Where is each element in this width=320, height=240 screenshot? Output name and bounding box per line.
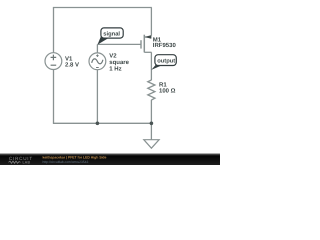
wire top rail: [53, 7, 152, 9]
svg-text:2.8 V: 2.8 V: [65, 62, 79, 69]
label V2 value: [109, 52, 129, 72]
svg-text:square: square: [109, 60, 129, 66]
wire V1 top branch: [53, 8, 55, 53]
M1 source arrow: [145, 35, 152, 39]
wire V2 bottom branch: [96, 70, 98, 124]
label M1 value: [153, 36, 177, 49]
wire R1 bottom: [150, 100, 152, 124]
svg-text:output: output: [157, 58, 175, 64]
svg-text:V2: V2: [109, 52, 117, 59]
junction dot V2/bottom rail: [96, 122, 100, 126]
node flag: signal: [98, 28, 124, 45]
wire ground stem: [150, 123, 152, 139]
svg-text:100 Ω: 100 Ω: [159, 87, 176, 94]
voltage source V1: [45, 53, 62, 70]
wire bottom rail: [53, 122, 152, 124]
voltage source V2: [89, 53, 106, 70]
wire M1 gate lead: [97, 43, 141, 45]
svg-text:http://circuitlab.com/cmru2354: http://circuitlab.com/cmru23543: [43, 160, 89, 164]
svg-text:V1: V1: [65, 55, 73, 62]
svg-text:1 Hz: 1 Hz: [109, 66, 121, 73]
transistor M1 (PMOS): [141, 35, 152, 53]
label R1 value: [159, 82, 176, 95]
svg-text:keithspacekar | PFET for LED H: keithspacekar | PFET for LED High Side: [43, 155, 107, 159]
wire V2 top branch: [96, 44, 98, 53]
wire M1 drain to R1: [150, 52, 152, 80]
svg-text:signal: signal: [103, 30, 120, 37]
resistor R1: [148, 80, 155, 100]
wire M1 source terminal: [150, 8, 152, 36]
CircuitLab logo: [9, 156, 33, 165]
node flag: output: [151, 55, 176, 70]
junction dot ground node: [150, 122, 154, 126]
label V1 value: [65, 55, 79, 68]
svg-text:IRF9530: IRF9530: [153, 42, 177, 49]
ground: [144, 140, 159, 149]
svg-text:LAB: LAB: [23, 161, 31, 165]
wire V1 bottom branch: [53, 69, 55, 123]
watermark bar: [0, 153, 220, 165]
